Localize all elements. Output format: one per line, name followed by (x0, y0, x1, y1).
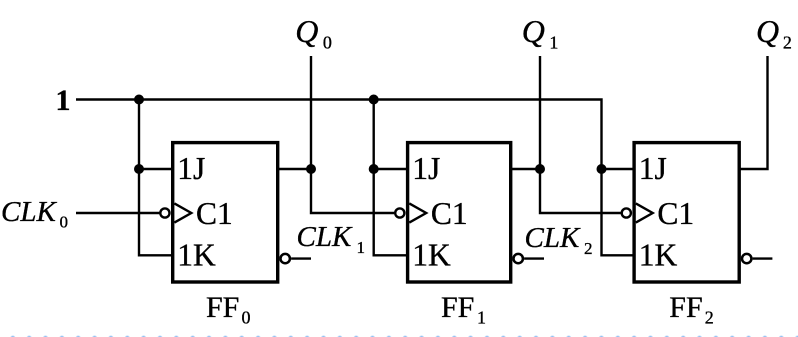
svg-text:2: 2 (584, 239, 593, 258)
svg-text:1K: 1K (412, 238, 451, 273)
svg-text:1K: 1K (177, 238, 216, 273)
svg-text:FF: FF (206, 291, 239, 324)
junction node Q1 (535, 164, 545, 174)
svg-text:Q: Q (522, 13, 545, 49)
junction node Q0 (306, 164, 316, 174)
wire: logic-1 bus from label to FF2 J/K feed, turning down at x=600.5 (76, 100, 634, 256)
wire: FF2 Q output up to Q2 (739, 56, 767, 169)
svg-text:CLK: CLK (297, 221, 353, 253)
svg-text:1: 1 (56, 84, 71, 117)
FF0 Q-bar bubble (281, 254, 290, 263)
svg-text:0: 0 (323, 33, 332, 53)
flip-flop FF2 body (634, 143, 739, 282)
junction FF0 1J feed (134, 164, 144, 174)
svg-text:CLK: CLK (525, 222, 581, 254)
wire: FF0 Q output to node Q0 (278, 168, 311, 170)
svg-text:1K: 1K (639, 238, 678, 273)
svg-text:C1: C1 (657, 196, 694, 231)
svg-text:C1: C1 (431, 196, 468, 231)
wire: FF1 J/K feed vertical at x=372.5 (374, 100, 408, 256)
wire: FF1 1J feed (374, 168, 408, 170)
FF0 clock bubble (160, 208, 169, 217)
wire: node Q0 vertical and clock feed to FF1 (311, 56, 394, 213)
flip-flop FF1 body (408, 143, 511, 282)
wire: FF1 Q-bar stub (524, 257, 544, 259)
FF2 clock bubble (622, 208, 631, 217)
wire: node Q1 vertical and clock feed to FF2 (540, 56, 621, 213)
junction FF1 1J feed (369, 164, 379, 174)
wire: FF0 J/K feed vertical at x=139 (139, 100, 173, 256)
FF0 clock edge triangle (174, 203, 191, 222)
svg-text:FF: FF (441, 291, 474, 324)
svg-text:1J: 1J (177, 151, 205, 186)
svg-text:1J: 1J (639, 151, 667, 186)
junction on bus at x=139 (134, 95, 144, 105)
wire: FF0 1J feed (139, 168, 173, 170)
svg-text:1: 1 (357, 238, 366, 257)
wire: FF2 Q-bar stub (753, 257, 773, 259)
FF2 Q-bar bubble (742, 254, 751, 263)
wire: CLK0 input to FF0 clock bubble (76, 212, 160, 214)
svg-text:C1: C1 (196, 196, 233, 231)
wire: FF0 Q-bar stub (291, 257, 311, 259)
junction FF2 1J feed (597, 164, 607, 174)
wire: FF1 Q output to node Q1 (511, 168, 540, 170)
svg-text:1J: 1J (412, 151, 440, 186)
FF1 clock bubble (395, 208, 404, 217)
svg-text:0: 0 (60, 213, 69, 232)
FF2 clock edge triangle (636, 203, 653, 222)
FF1 clock edge triangle (409, 203, 426, 222)
svg-text:1: 1 (477, 308, 486, 328)
FF1 Q-bar bubble (514, 254, 523, 263)
svg-text:CLK: CLK (1, 196, 57, 228)
svg-text:0: 0 (242, 308, 251, 328)
svg-text:2: 2 (705, 308, 714, 328)
svg-text:1: 1 (549, 33, 558, 53)
svg-text:FF: FF (669, 291, 702, 324)
wire: FF2 1J feed (602, 168, 635, 170)
flip-flop FF0 body (173, 143, 278, 282)
svg-text:Q: Q (295, 13, 318, 49)
svg-text:Q: Q (756, 13, 779, 49)
svg-text:2: 2 (783, 33, 792, 53)
junction on bus at x=372.5 (369, 95, 379, 105)
